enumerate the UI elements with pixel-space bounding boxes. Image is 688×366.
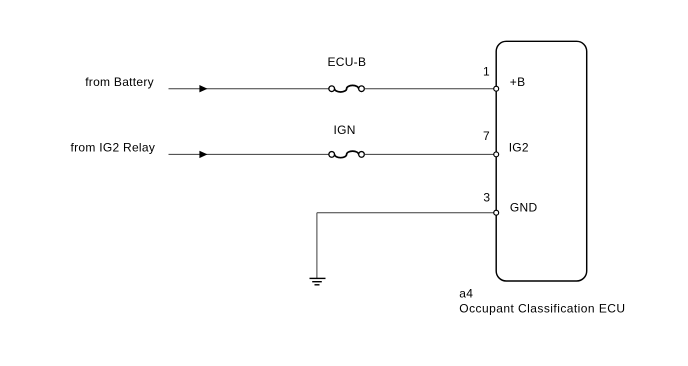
svg-text:a4: a4 [459, 287, 473, 301]
svg-text:7: 7 [483, 129, 490, 143]
ground symbol [310, 278, 326, 284]
svg-text:Occupant Classification ECU: Occupant Classification ECU [459, 302, 625, 316]
fuse IGN [329, 151, 365, 158]
svg-text:IG2: IG2 [509, 140, 529, 154]
svg-text:GND: GND [510, 200, 538, 214]
pin 3 terminal [494, 210, 499, 215]
wire: ground horizontal run to pin 3 [317, 212, 494, 214]
svg-text:IGN: IGN [334, 123, 356, 137]
svg-text:from IG2 Relay: from IG2 Relay [71, 140, 156, 154]
pin 7 terminal [494, 152, 499, 157]
svg-text:ECU-B: ECU-B [328, 55, 367, 69]
wire: fuse ECU-B to pin 1 [364, 88, 493, 90]
svg-text:1: 1 [483, 65, 490, 79]
wire: ground vertical drop [316, 213, 318, 279]
pin 1 terminal [494, 86, 499, 91]
arrow: current direction on IG2 wire [199, 151, 207, 158]
svg-text:3: 3 [483, 191, 490, 205]
arrow: current direction on battery wire [199, 85, 207, 92]
svg-text:from Battery: from Battery [85, 75, 154, 89]
ECU box a4: Occupant Classification ECU [496, 41, 587, 281]
wire: fuse IGN to pin 7 [364, 153, 493, 155]
wire: IG2 relay feed to fuse IGN [169, 153, 330, 155]
wire: battery feed to fuse ECU-B [169, 88, 330, 90]
fuse ECU-B [329, 85, 365, 92]
svg-text:+B: +B [510, 75, 526, 89]
